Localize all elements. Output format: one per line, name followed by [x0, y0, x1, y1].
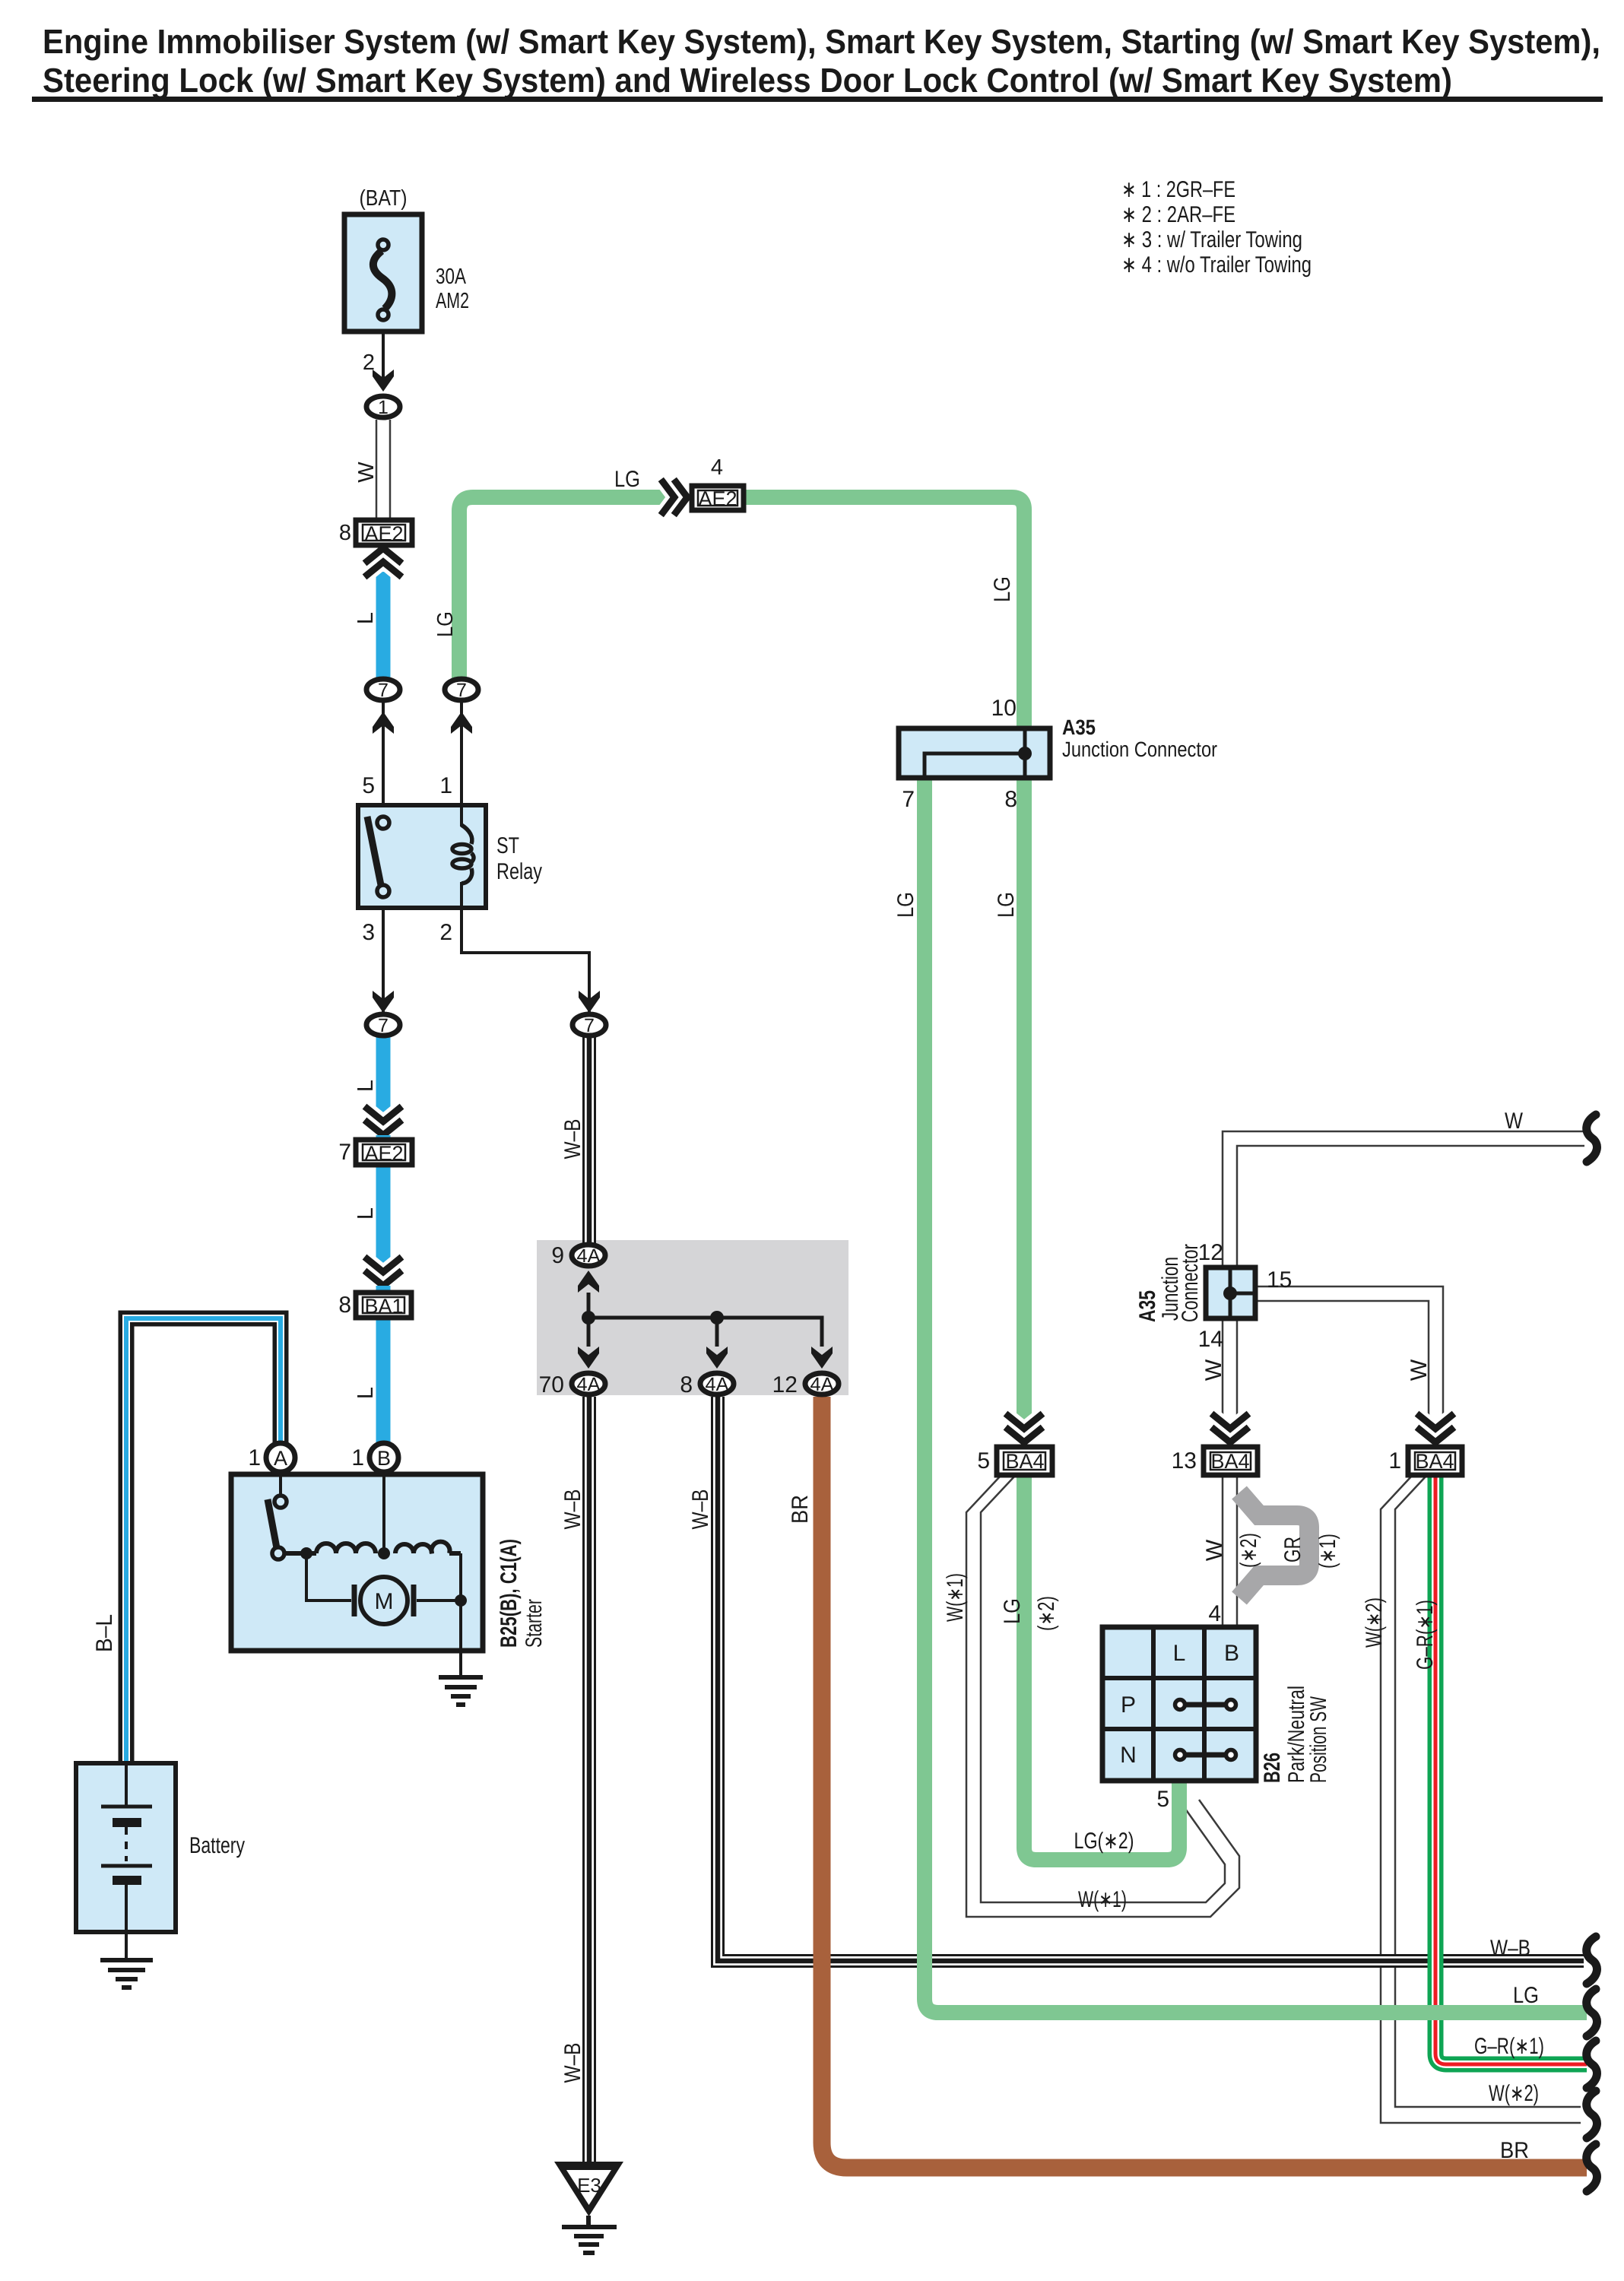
svg-text:GR: GR	[1280, 1537, 1305, 1562]
gray fork GR(*1) alternative	[1239, 1493, 1309, 1598]
svg-text:13: 13	[1172, 1448, 1197, 1474]
svg-text:4: 4	[711, 455, 723, 480]
svg-text:1: 1	[439, 773, 452, 798]
chevron up below AE2-8	[367, 548, 399, 575]
wire G-R BA4-1 down and right to edge	[1435, 1476, 1587, 2064]
node 7 low right	[573, 1014, 606, 1036]
wire fuse pin2 to connector 1	[382, 332, 385, 380]
A35 junction connector 2	[1206, 1267, 1255, 1318]
wire W(*1) BA4-5 to B26 pin5	[966, 1476, 1239, 1917]
svg-text:1: 1	[378, 397, 389, 418]
svg-text:1: 1	[351, 1445, 364, 1470]
ground E3	[554, 2162, 623, 2253]
wire BR 4A-12 down then right to edge	[822, 1397, 1587, 2168]
relay pin1 wire	[460, 701, 463, 826]
svg-text:W: W	[1201, 1359, 1226, 1381]
svg-text:7: 7	[378, 680, 389, 701]
svg-text:7: 7	[456, 680, 467, 701]
svg-text:Battery: Battery	[189, 1833, 245, 1858]
svg-text:8: 8	[339, 521, 351, 545]
svg-text:B–L: B–L	[92, 1614, 117, 1652]
svg-text:W: W	[1202, 1539, 1227, 1561]
svg-text:W: W	[1505, 1109, 1524, 1134]
wire L ellipse7 to AE2-7, BA1-8, starter B (blue)	[376, 1036, 391, 1140]
node 9 4A	[572, 1245, 605, 1267]
svg-text:12: 12	[772, 1372, 798, 1397]
starter coils	[284, 1542, 461, 1553]
node 12 4A	[805, 1373, 839, 1395]
continuation squiggle W wire	[1587, 1115, 1597, 1162]
svg-text:Engine Immobiliser System (w/: Engine Immobiliser System (w/ Smart Key …	[43, 22, 1600, 61]
battery box	[76, 1763, 176, 1932]
wire LG A35 pin7 down and right to edge	[925, 779, 1587, 2013]
svg-text:W(∗2): W(∗2)	[1362, 1597, 1387, 1648]
wire W BA4-13 down to B26 pin4	[1223, 1475, 1237, 1626]
arrows down to ellipse7 pair 2	[373, 991, 394, 1013]
svg-text:BA4: BA4	[1005, 1450, 1044, 1473]
svg-text:LG(∗2): LG(∗2)	[1074, 1829, 1134, 1854]
svg-text:4A: 4A	[810, 1374, 834, 1395]
svg-text:W(∗2): W(∗2)	[1489, 2081, 1539, 2106]
svg-text:LG: LG	[990, 576, 1015, 602]
svg-text:7: 7	[378, 1015, 389, 1036]
wire W from A35 pin12 up and right to edge	[1223, 1131, 1584, 1267]
chevron down above BA1-8	[367, 1259, 399, 1286]
continuation squiggle W-B wire	[1587, 1937, 1597, 1984]
svg-text:∗ 4 : w/o Trailer Towing: ∗ 4 : w/o Trailer Towing	[1121, 252, 1312, 278]
svg-text:L: L	[354, 1207, 378, 1220]
wire L stub above AE2-7 box	[376, 1135, 391, 1141]
wire W A35 pin14 down to BA4-13	[1223, 1319, 1237, 1448]
node 7 left	[366, 679, 400, 701]
arrows up to ellipse7 pair	[373, 712, 394, 734]
svg-text:15: 15	[1267, 1267, 1292, 1293]
svg-text:B25(B), C1(A): B25(B), C1(A)	[496, 1539, 522, 1648]
svg-text:AE2: AE2	[364, 522, 403, 545]
chevron down above BA4-1	[1419, 1416, 1451, 1442]
svg-text:14: 14	[1198, 1327, 1223, 1352]
fuse 30A AM2	[344, 214, 422, 332]
svg-text:5: 5	[1156, 1787, 1169, 1812]
svg-text:ST: ST	[496, 833, 519, 858]
svg-text:70: 70	[539, 1372, 564, 1397]
svg-text:L: L	[354, 612, 378, 624]
svg-text:(∗2): (∗2)	[1034, 1596, 1059, 1631]
svg-text:8: 8	[338, 1293, 351, 1318]
svg-text:LG: LG	[1000, 1598, 1025, 1624]
starter box	[231, 1474, 483, 1651]
svg-text:W: W	[1407, 1359, 1432, 1381]
svg-text:10: 10	[991, 696, 1017, 721]
chevron down above AE2-7	[367, 1109, 399, 1135]
wire W-B ellipse7 to 4A-9	[582, 1036, 596, 1244]
svg-text:N: N	[1120, 1743, 1137, 1768]
svg-text:BA4: BA4	[1210, 1450, 1249, 1473]
svg-text:7: 7	[338, 1140, 351, 1165]
wire LG main: ellipse7 up, right, down through A35/BA4-5, to B26 pin5	[459, 497, 1179, 1860]
svg-text:A35: A35	[1135, 1290, 1160, 1322]
arrows down in ECU	[578, 1347, 599, 1369]
svg-text:(BAT): (BAT)	[360, 186, 408, 211]
svg-text:B26: B26	[1260, 1753, 1285, 1783]
relay switch	[367, 817, 389, 897]
wire L stub above BA1-8 box	[376, 1286, 391, 1294]
node A starter	[266, 1443, 295, 1472]
svg-text:B: B	[1224, 1641, 1239, 1666]
node 7 low left	[366, 1014, 400, 1036]
chevron down above BA4-13	[1214, 1416, 1246, 1442]
relay pin3 wire	[382, 908, 385, 1013]
svg-text:4: 4	[1208, 1601, 1221, 1626]
battery cells	[101, 1763, 152, 1932]
connector 5 BA4	[997, 1447, 1052, 1475]
svg-text:Starter: Starter	[522, 1599, 547, 1648]
starter B wire down to coil junction	[382, 1474, 385, 1553]
svg-text:W(∗1): W(∗1)	[1078, 1887, 1127, 1912]
svg-text:30A: 30A	[436, 265, 467, 289]
svg-text:AE2: AE2	[364, 1142, 403, 1165]
svg-text:5: 5	[362, 773, 375, 798]
svg-text:L: L	[354, 1387, 378, 1399]
gray ECU box (4A)	[537, 1240, 848, 1395]
svg-text:∗ 3 : w/ Trailer Towing: ∗ 3 : w/ Trailer Towing	[1121, 227, 1302, 252]
svg-text:A: A	[274, 1447, 287, 1470]
svg-text:L: L	[1173, 1641, 1186, 1666]
continuation squiggle W(*2) wire	[1587, 2091, 1597, 2138]
svg-text:AE2: AE2	[698, 487, 737, 510]
continuation squiggle G-R wire	[1587, 2041, 1597, 2088]
wire L AE2-8 to ellipse7 (blue)	[376, 572, 391, 680]
svg-text:LG: LG	[614, 467, 640, 492]
connector 8 AE2	[356, 520, 412, 545]
svg-text:A35: A35	[1062, 715, 1096, 739]
relay coil	[452, 825, 474, 884]
svg-text:3: 3	[362, 920, 375, 945]
arrow up in ECU to 4A-9	[578, 1271, 599, 1293]
node 1	[366, 396, 400, 418]
svg-text:BA4: BA4	[1415, 1450, 1454, 1473]
svg-text:5: 5	[977, 1448, 990, 1474]
relay pin2 wire L-bend	[462, 882, 589, 1013]
node 8 4A	[700, 1373, 734, 1395]
wire W A35 pin15 right and down to BA4-1	[1256, 1286, 1443, 1448]
starter motor branch wires	[306, 1553, 351, 1601]
svg-text:G–R(∗1): G–R(∗1)	[1413, 1600, 1438, 1670]
svg-text:W–B: W–B	[560, 1119, 585, 1160]
svg-text:1: 1	[1388, 1448, 1401, 1474]
svg-text:E3: E3	[577, 2174, 601, 2197]
svg-text:W–B: W–B	[560, 2043, 585, 2083]
svg-text:LG: LG	[433, 611, 458, 637]
starter motor M	[354, 1577, 414, 1624]
svg-text:W(∗1): W(∗1)	[943, 1573, 968, 1622]
continuation squiggle BR wire	[1587, 2144, 1597, 2191]
svg-text:LG: LG	[1513, 1983, 1539, 2008]
svg-text:7: 7	[584, 1015, 595, 1036]
svg-text:W: W	[354, 462, 379, 483]
svg-text:B: B	[377, 1447, 391, 1470]
connector 1 BA4	[1408, 1447, 1462, 1475]
svg-text:8: 8	[680, 1372, 693, 1397]
title	[32, 22, 1603, 102]
arrow fuse to 1	[373, 370, 394, 392]
A35 junction connector 1	[899, 728, 1050, 778]
svg-text:∗ 1 : 2GR–FE: ∗ 1 : 2GR–FE	[1121, 177, 1235, 202]
svg-text:(∗2): (∗2)	[1236, 1533, 1261, 1568]
node B starter	[370, 1443, 398, 1472]
svg-text:BA1: BA1	[364, 1295, 403, 1318]
node 70 4A	[572, 1373, 605, 1395]
svg-text:G–R(∗1): G–R(∗1)	[1474, 2034, 1544, 2059]
svg-text:LG: LG	[994, 892, 1019, 918]
connector 7 AE2	[356, 1140, 412, 1165]
svg-text:LG: LG	[893, 892, 918, 918]
svg-text:(∗1): (∗1)	[1315, 1534, 1340, 1569]
connector 13 BA4	[1204, 1447, 1258, 1475]
svg-text:Junction Connector: Junction Connector	[1062, 738, 1217, 761]
svg-text:9: 9	[551, 1243, 564, 1268]
connector 4 AE2	[692, 486, 744, 510]
chevron right on LG before AE2-4	[663, 482, 687, 512]
svg-text:Relay: Relay	[496, 859, 542, 884]
svg-text:W–B: W–B	[1490, 1936, 1530, 1961]
legend notes	[1121, 177, 1312, 278]
svg-text:2: 2	[439, 920, 452, 945]
chevron down above BA4-5	[1008, 1416, 1040, 1442]
svg-text:P: P	[1121, 1693, 1136, 1718]
ST relay box	[358, 805, 486, 908]
svg-text:AM2: AM2	[436, 289, 469, 313]
svg-text:4A: 4A	[706, 1374, 729, 1395]
wire W fuse to AE2 (white, double line)	[376, 420, 390, 523]
svg-text:W–B: W–B	[560, 1489, 585, 1530]
svg-text:Position SW: Position SW	[1306, 1696, 1331, 1783]
starter switch	[268, 1474, 287, 1559]
svg-text:1: 1	[248, 1445, 261, 1470]
svg-text:W–B: W–B	[688, 1489, 713, 1530]
battery ground	[100, 1932, 153, 1988]
svg-text:7: 7	[902, 787, 915, 812]
wire W(*2) BA4-1 to right edge	[1381, 1476, 1581, 2123]
wire B-L battery to starter A	[126, 1318, 281, 1762]
svg-text:M: M	[375, 1589, 394, 1614]
starter ground	[439, 1653, 483, 1705]
svg-text:4A: 4A	[577, 1245, 601, 1267]
svg-text:BR: BR	[1500, 2138, 1529, 2163]
svg-text:∗ 2 : 2AR–FE: ∗ 2 : 2AR–FE	[1121, 202, 1235, 227]
svg-text:BR: BR	[788, 1495, 813, 1524]
continuation squiggle LG wire	[1587, 1989, 1597, 2036]
svg-text:4A: 4A	[577, 1374, 601, 1395]
svg-text:Connector: Connector	[1178, 1244, 1203, 1322]
svg-text:L: L	[354, 1080, 378, 1092]
wire W-B 4A-70 down to E3	[582, 1397, 596, 2166]
connector 8 BA1	[356, 1293, 411, 1318]
wire W-B 4A-8 down then right to edge	[718, 1397, 1584, 1961]
ECU internal junction	[582, 1293, 822, 1347]
relay pin5 wire	[382, 701, 385, 805]
svg-text:2: 2	[363, 351, 375, 375]
svg-text:Steering Lock (w/ Smart Key Sy: Steering Lock (w/ Smart Key System) and …	[43, 61, 1452, 100]
starter coil junction dots	[300, 1547, 312, 1559]
node 7 right	[445, 679, 478, 701]
svg-text:8: 8	[1004, 787, 1017, 812]
B26 park/neutral position SW	[1102, 1627, 1256, 1781]
